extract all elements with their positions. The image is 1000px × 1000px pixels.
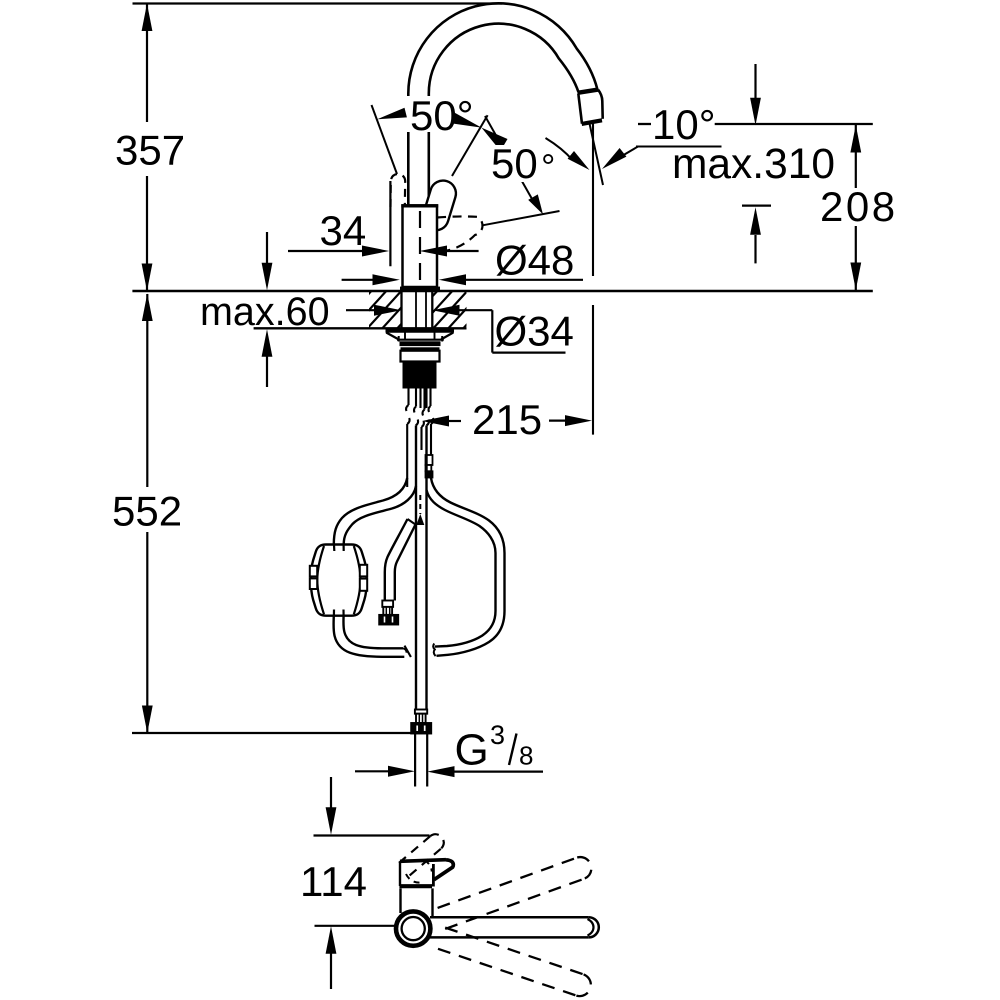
dimension 114 bbox=[326, 777, 337, 989]
front view body bbox=[401, 888, 433, 916]
label max.310 with leader bbox=[602, 147, 722, 170]
dimension 34 bbox=[288, 181, 479, 266]
hose bundle below break bbox=[407, 418, 433, 487]
front view swivel joint circle bbox=[396, 911, 430, 945]
pullout hose connector G38 bbox=[411, 710, 431, 734]
label 50deg lower bbox=[487, 145, 557, 182]
hose stubs into weight bbox=[334, 545, 344, 616]
front view dashed raised lever bbox=[396, 834, 444, 878]
front view lower reference line bbox=[315, 925, 397, 927]
faucet spout inner curve bbox=[429, 24, 579, 206]
shank through counter bbox=[402, 291, 433, 328]
svg-text:50: 50 bbox=[491, 140, 538, 187]
pullout hose center run bbox=[416, 426, 427, 710]
spray swivel lower ray bbox=[483, 211, 559, 225]
lever handle solid position bbox=[420, 177, 460, 233]
svg-text:215: 215 bbox=[472, 396, 542, 443]
dimension O48 bbox=[342, 274, 583, 285]
dimension max.60 outside arrows bbox=[262, 232, 273, 387]
spare hose diagonal bbox=[385, 519, 408, 601]
lever handle dashed left position bbox=[391, 174, 406, 207]
front view spout dashed upper position bbox=[438, 857, 592, 929]
shank coupler block bbox=[403, 362, 437, 388]
arrowhead on left ray bbox=[377, 108, 407, 120]
svg-text:50°: 50° bbox=[410, 92, 474, 139]
bowtie arrowheads on middle ray bbox=[453, 112, 482, 128]
body top edge thick bbox=[401, 204, 438, 207]
right supply hose upper curve bbox=[431, 478, 505, 656]
svg-text:114: 114 bbox=[300, 858, 367, 905]
svg-text:34: 34 bbox=[320, 207, 367, 254]
svg-text:max.310: max.310 bbox=[672, 141, 835, 188]
lever handle dashed horizontal position bbox=[437, 216, 483, 250]
wire spray direction 10deg line bbox=[590, 124, 604, 186]
escutcheon below counter bbox=[386, 331, 455, 342]
svg-text:Ø48: Ø48 bbox=[495, 237, 574, 284]
dimension max.310 outside arrows bbox=[742, 64, 771, 263]
hose bundle above break bbox=[406, 389, 430, 416]
svg-text:3: 3 bbox=[490, 720, 505, 750]
svg-text:8: 8 bbox=[519, 741, 533, 771]
spare hose top cut bbox=[408, 519, 416, 525]
wire top reference line bbox=[133, 2, 503, 4]
wire spout tip extension line bbox=[592, 123, 594, 435]
hose weight bbox=[311, 545, 367, 616]
spray head separation line bbox=[578, 90, 599, 93]
svg-text:Ø34: Ø34 bbox=[495, 308, 574, 355]
dimension 215 bbox=[422, 415, 592, 426]
svg-text:552: 552 bbox=[112, 488, 182, 535]
wire counter deck line bbox=[132, 290, 872, 293]
handle angle ray left bbox=[372, 105, 398, 174]
dimension O34 with leader bbox=[346, 305, 566, 353]
left supply hose to weight bbox=[334, 478, 407, 544]
faucet spout outer curve bbox=[408, 3, 597, 205]
faucet body bbox=[403, 206, 438, 288]
spray head outlet face bbox=[582, 120, 602, 124]
svg-text:357: 357 bbox=[115, 127, 185, 174]
insert direction dashed arrow bbox=[419, 495, 421, 514]
spray head body bbox=[578, 90, 602, 124]
dimension 357 bbox=[142, 4, 153, 292]
body centerline dashed bbox=[419, 211, 421, 286]
front view spout dashed lower position bbox=[438, 928, 591, 996]
front view spout horizontal bbox=[430, 917, 599, 937]
faucet base plate bbox=[400, 287, 440, 291]
left hose end cut bbox=[405, 646, 411, 657]
front view upper reference line bbox=[314, 834, 430, 836]
left hose below weight bbox=[334, 616, 405, 657]
spray swivel arc arrow bbox=[546, 138, 574, 161]
svg-text:10°: 10° bbox=[652, 101, 716, 148]
hose below connector bbox=[415, 734, 427, 787]
svg-text:G: G bbox=[455, 726, 489, 775]
front view handle bbox=[399, 860, 453, 887]
wire spout outlet level line bbox=[715, 123, 873, 125]
handle angle ray middle bbox=[452, 115, 488, 176]
mounting hatch left bbox=[334, 288, 434, 332]
wire bottom reference line 552 bbox=[132, 732, 411, 734]
svg-text:max.60: max.60 bbox=[200, 290, 330, 334]
label 50deg upper (white backing) bbox=[404, 96, 475, 132]
dimension 552 bbox=[142, 294, 153, 734]
spare hose connector bbox=[379, 601, 398, 625]
arrowhead end of right ray bbox=[528, 194, 543, 214]
svg-text:208: 208 bbox=[820, 183, 898, 230]
mounting nut bbox=[400, 341, 441, 346]
wire 10deg label stub bbox=[638, 123, 651, 125]
dimension G 3/8 bbox=[355, 766, 543, 777]
svg-text:°: ° bbox=[541, 146, 555, 187]
dimension 208 bbox=[850, 124, 861, 291]
handle angle ray right bbox=[485, 116, 536, 206]
wire counter underside line bbox=[254, 327, 467, 329]
right hose end cut bbox=[433, 644, 435, 657]
pullout hose spray fitting bbox=[426, 455, 433, 478]
